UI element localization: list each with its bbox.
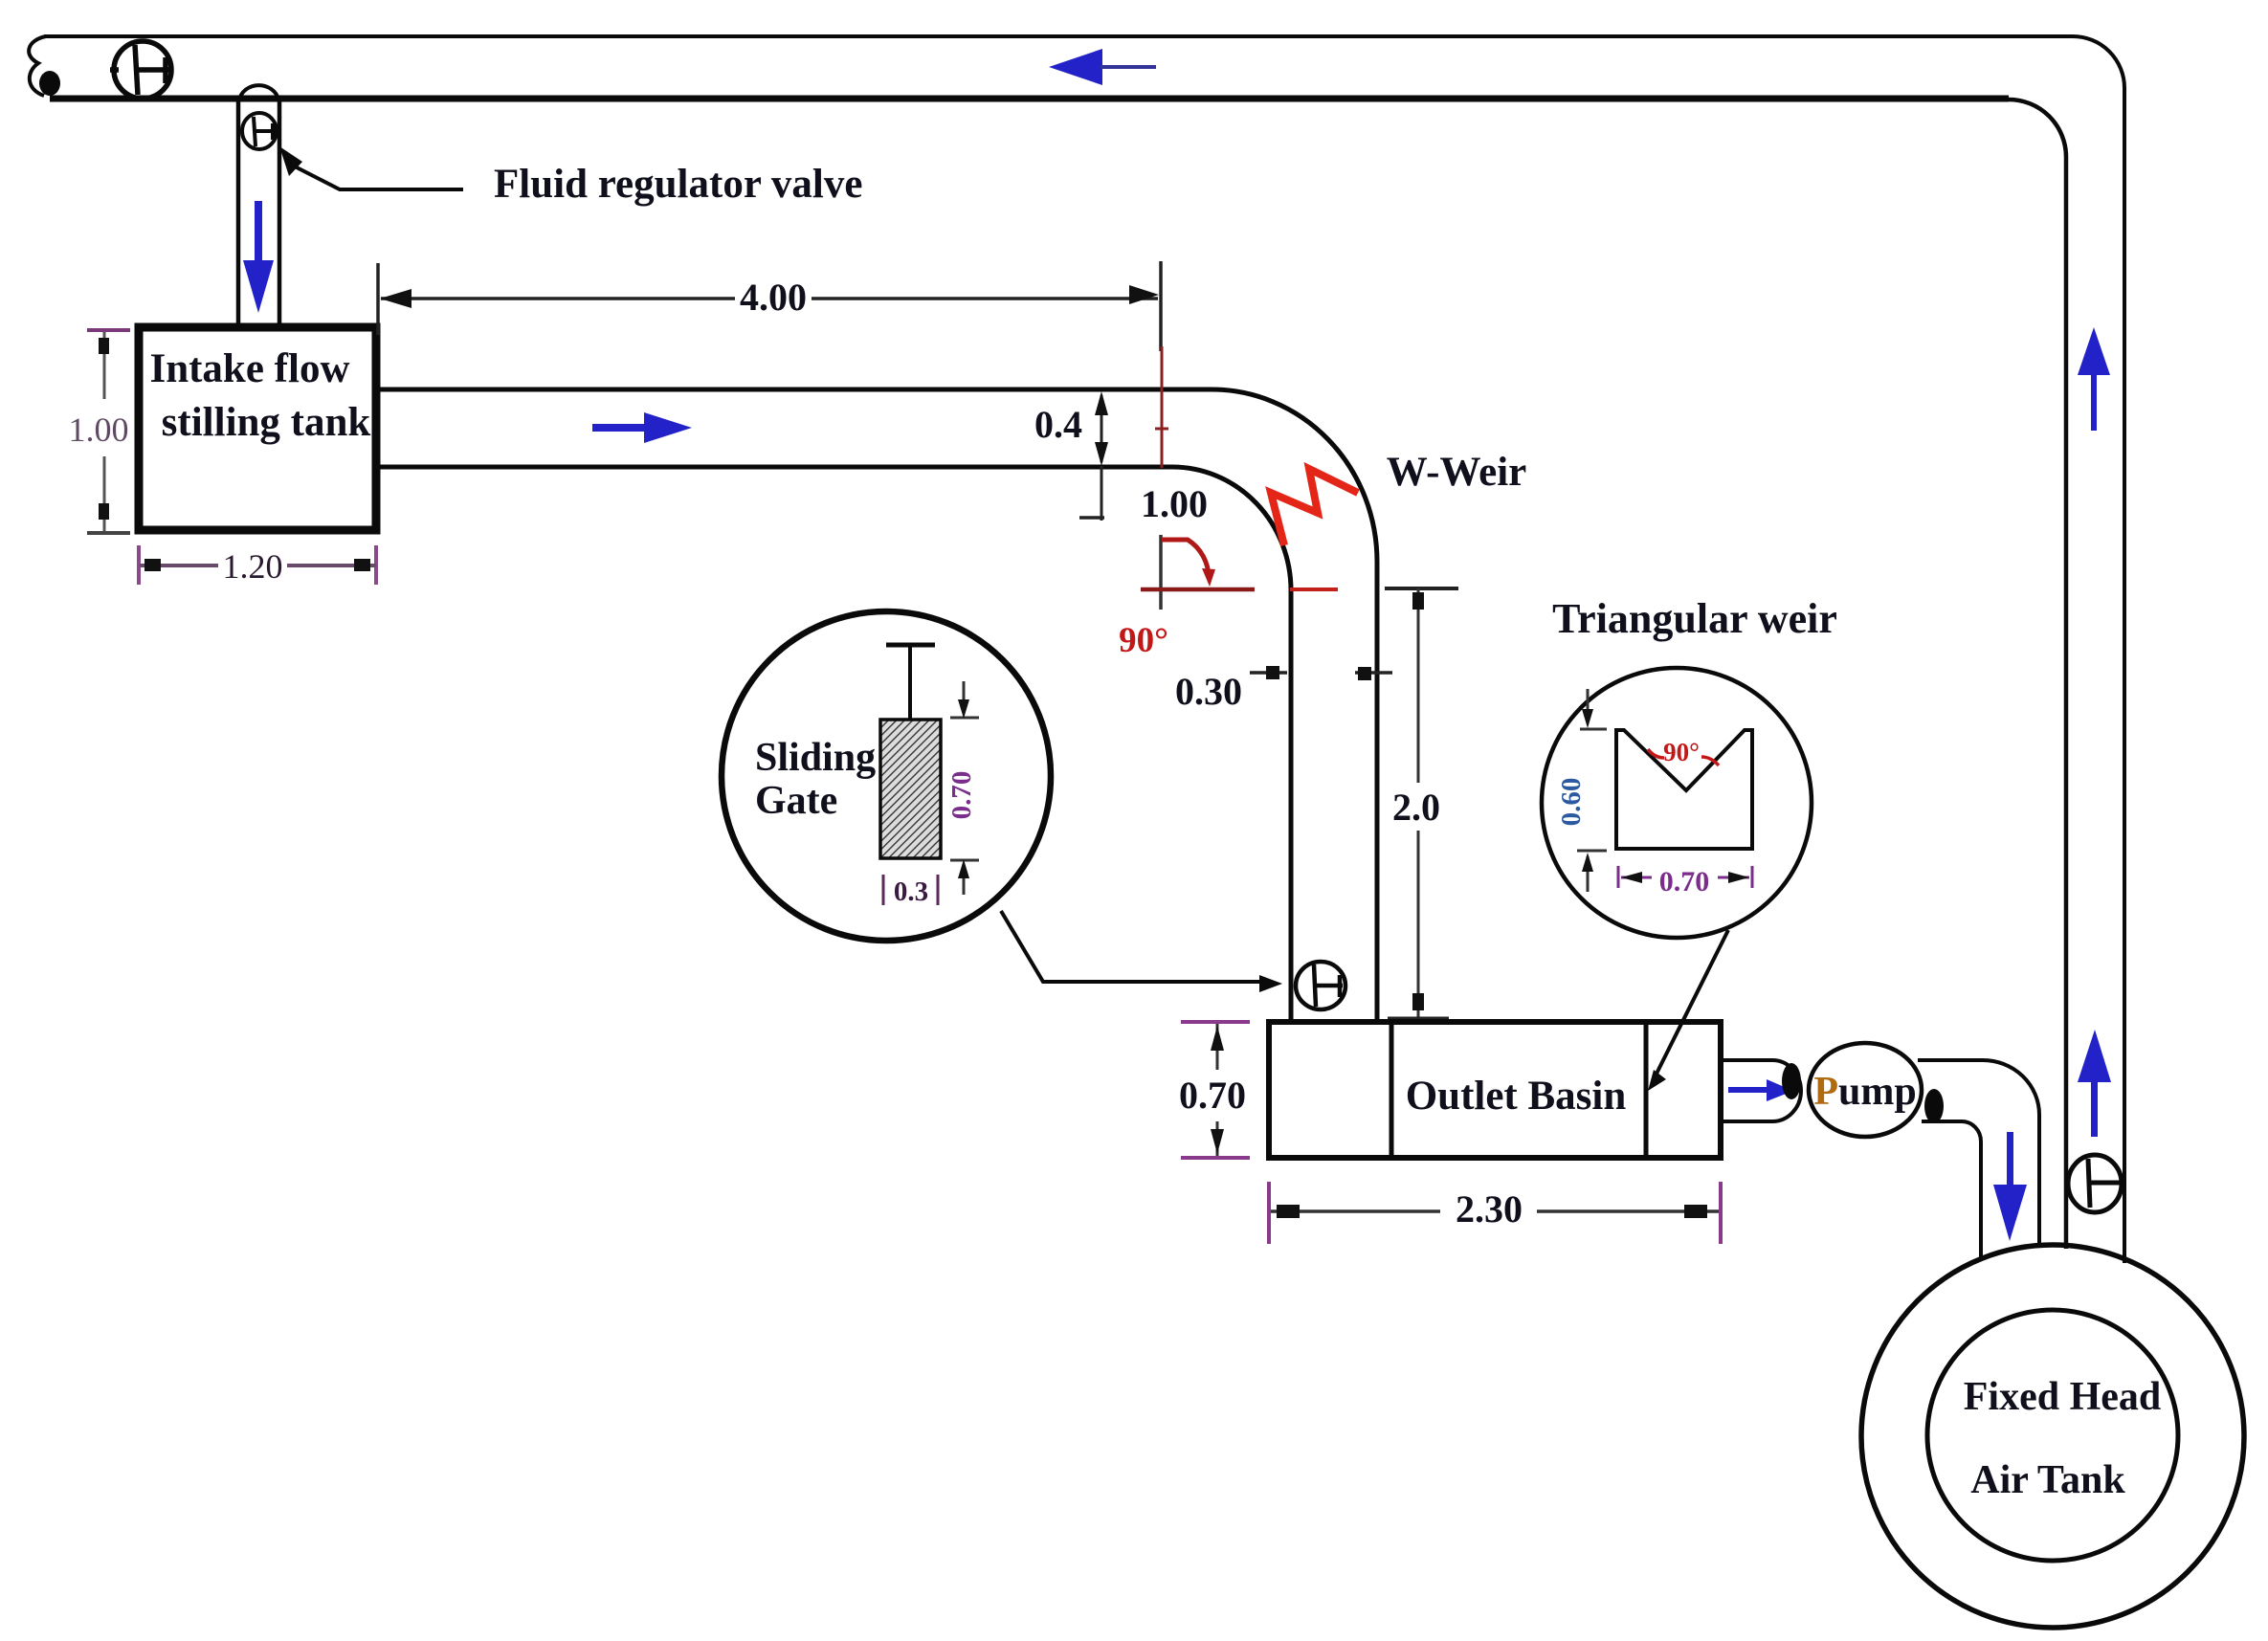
flow arrow (blue, upward) in return pipe upper	[2078, 327, 2110, 431]
valve V1 on top supply pipe	[110, 41, 171, 99]
flow arrow (blue, rightward) into pump	[1728, 1079, 1793, 1101]
svg-text:90°: 90°	[1663, 738, 1700, 766]
node: filled dot at pipe left end	[39, 71, 60, 96]
sliding gate T-handle	[886, 643, 935, 648]
thin dark red construction line through channel at bend	[1161, 346, 1164, 468]
dimension 0.4 (channel depth)	[1034, 391, 1108, 521]
dimension 0.60 (weir height, rotated blue)	[1556, 689, 1607, 892]
90 degree angle symbol (red) at bend	[1119, 535, 1338, 660]
triangular (V-notch) weir plate	[1616, 730, 1752, 849]
svg-text:Triangular weir: Triangular weir	[1552, 595, 1837, 642]
node: pump inlet port (filled)	[1782, 1063, 1801, 1099]
wire: pipe from pump curving down to air tank (outer wall)	[1918, 1060, 2039, 1246]
svg-text:Pump: Pump	[1813, 1070, 1916, 1114]
wire: top supply pipe bottom wall	[50, 96, 2009, 102]
svg-text:Gate: Gate	[755, 779, 837, 823]
svg-text:W-Weir: W-Weir	[1387, 450, 1526, 495]
outlet basin internal partition left	[1390, 1024, 1394, 1156]
svg-text:2.0: 2.0	[1392, 786, 1440, 829]
wire: left end squiggle of top pipe	[29, 36, 46, 96]
svg-text:0.60: 0.60	[1556, 778, 1587, 827]
leader from triangular weir detail to outlet basin	[1657, 930, 1728, 1074]
flow arrow (blue, rightward) in flume channel	[592, 412, 692, 443]
sliding gate detail circle	[722, 611, 1051, 941]
sliding gate hatched plate	[880, 720, 941, 858]
pump circle	[1809, 1043, 1922, 1137]
label: 90 degrees (red) at notch	[1648, 738, 1719, 766]
dimension 0.3 (gate width)	[883, 875, 938, 907]
wire: flume channel top wall with 90-degree outer bend into vertical channel right wall	[380, 389, 1377, 1020]
wire: vertical inlet pipe from top pipe to intake tank	[236, 101, 241, 325]
svg-text:Fluid regulator valve: Fluid regulator valve	[494, 162, 862, 207]
svg-text:4.00: 4.00	[740, 276, 807, 319]
svg-text:Sliding: Sliding	[755, 736, 876, 780]
dimension 0.70 (gate height, rotated)	[946, 681, 979, 895]
svg-text:1.00: 1.00	[69, 410, 129, 449]
svg-text:stilling tank: stilling tank	[162, 400, 371, 445]
flow arrow (blue, downward) in inlet pipe	[243, 201, 274, 313]
dimension 4.00 (channel length, top)	[378, 261, 1161, 351]
wire: pipe from pump curving down to air tank (inner wall)	[1922, 1121, 1981, 1259]
dimension 0.30 (vertical channel width)	[1175, 666, 1392, 713]
wire: inner corner of top pipe into right return pipe inner wall	[2009, 100, 2066, 1249]
valve V4 on return pipe above air tank	[2068, 1155, 2122, 1212]
W-Weir red zigzag across the bend	[1271, 469, 1358, 545]
svg-text:0.4: 0.4	[1034, 403, 1082, 446]
svg-text:0.3: 0.3	[894, 876, 928, 907]
wire: rounded bump where inlet pipe taps top pipe	[239, 85, 278, 100]
intake flow stilling tank box	[139, 327, 376, 530]
svg-text:Air Tank: Air Tank	[1970, 1458, 2125, 1502]
wire: top supply pipe top wall with corner to right return pipe outer wall	[44, 36, 2124, 1263]
svg-text:0.30: 0.30	[1175, 670, 1242, 713]
svg-text:Intake flow: Intake flow	[149, 346, 349, 391]
dimension 1.20 (tank width, below)	[139, 545, 376, 586]
fixed head air tank outer circle	[1861, 1245, 2244, 1628]
wire: flume channel bottom wall with inner bend into vertical channel left wall	[380, 467, 1291, 1020]
leader arrow to fluid regulator valve	[279, 146, 302, 176]
node: pump outlet port (filled)	[1924, 1089, 1944, 1123]
svg-text:2.30: 2.30	[1456, 1187, 1523, 1231]
dimension 0.70 (weir width)	[1618, 866, 1752, 898]
flow arrow (blue, upward) in return pipe lower	[2078, 1030, 2111, 1137]
outlet basin internal partition right	[1644, 1024, 1649, 1156]
svg-text:Fixed Head: Fixed Head	[1964, 1375, 2162, 1419]
triangular weir detail circle	[1542, 668, 1812, 938]
svg-text:1.00: 1.00	[1141, 482, 1208, 525]
valve V2: fluid regulator valve on inlet pipe	[242, 113, 277, 149]
wire: outlet pipe from basin to pump (rounded cap)	[1723, 1060, 1801, 1121]
flow arrow (blue, downward) in pipe to air tank	[1993, 1132, 2027, 1241]
dimension 0.70 (basin depth, left)	[1179, 1022, 1250, 1158]
svg-text:1.20: 1.20	[223, 547, 283, 586]
svg-text:Outlet Basin: Outlet Basin	[1406, 1074, 1627, 1119]
svg-text:0.70: 0.70	[1179, 1074, 1246, 1117]
dimension 2.30 (basin length, below)	[1269, 1182, 1721, 1244]
dimension 1.00 (tank height, left side)	[69, 330, 131, 533]
outlet basin box	[1269, 1022, 1721, 1158]
valve V3 on vertical channel above outlet basin	[1296, 962, 1345, 1009]
flow arrow (blue, leftward) in top pipe	[1049, 49, 1156, 85]
svg-text:0.70: 0.70	[946, 771, 977, 820]
dimension 2.0 (vertical channel height)	[1385, 588, 1458, 1020]
fixed head air tank inner circle	[1927, 1310, 2178, 1561]
svg-text:90°: 90°	[1119, 621, 1168, 660]
leader from sliding gate detail to channel valve	[1001, 911, 1265, 982]
svg-text:0.70: 0.70	[1659, 866, 1710, 898]
